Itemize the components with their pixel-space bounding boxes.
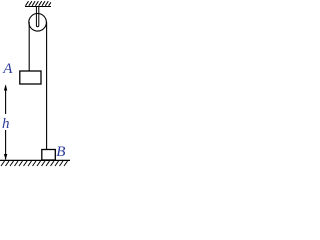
- svg-text:h: h: [2, 116, 10, 132]
- svg-text:B: B: [56, 144, 65, 160]
- svg-text:A: A: [2, 61, 13, 77]
